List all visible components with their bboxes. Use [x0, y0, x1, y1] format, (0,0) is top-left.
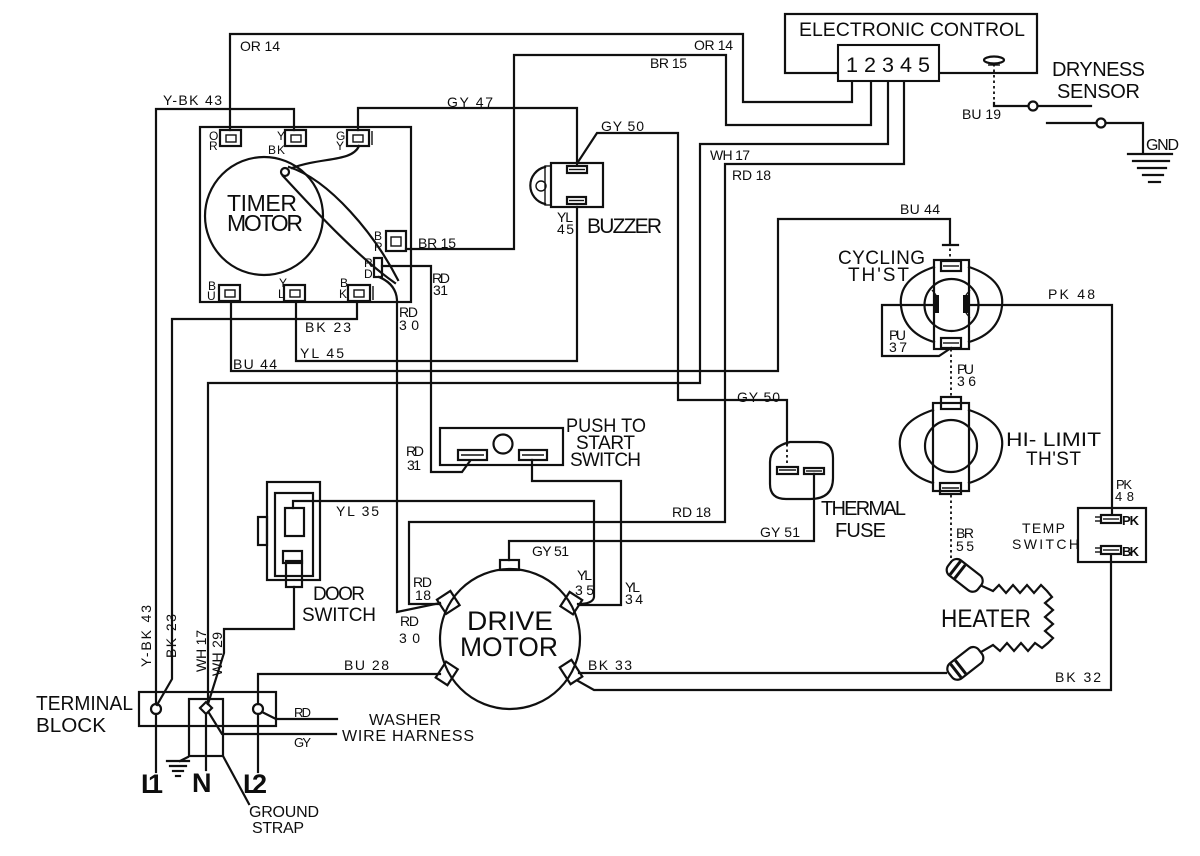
svg-text:DRYNESS: DRYNESS	[1052, 59, 1145, 81]
svg-text:GY 51: GY 51	[760, 524, 800, 540]
hi-limit thermostat body	[900, 397, 1002, 494]
wire RD 31 (timer R/D terminal to push-to-start left contact)	[382, 266, 470, 472]
svg-text:DOOR: DOOR	[313, 584, 365, 605]
motor right lower terminal	[560, 660, 583, 684]
svg-text:MOTOR: MOTOR	[227, 210, 303, 236]
svg-text:BK: BK	[1122, 544, 1140, 559]
thermal fuse right terminal	[804, 468, 824, 474]
temp switch PK terminal	[1095, 513, 1140, 528]
timer terminal B/R right side	[374, 229, 406, 254]
drive motor circle	[440, 569, 580, 709]
svg-text:L2: L2	[243, 769, 267, 799]
svg-text:HI- LIMIT: HI- LIMIT	[1006, 430, 1101, 451]
svg-text:BK 23: BK 23	[305, 319, 351, 335]
svg-text:WH 17: WH 17	[710, 147, 750, 163]
svg-text:GY: GY	[294, 735, 311, 750]
motor top terminal	[500, 560, 519, 570]
wire PK 48 (cycling thermostat right to temp switch PK)	[969, 305, 1112, 513]
wire RD 30 (timer R/D terminal to drive motor left)	[379, 277, 440, 612]
door switch lower contact	[283, 551, 302, 563]
push to start right contact	[519, 450, 547, 460]
svg-text:YL 45: YL 45	[300, 345, 344, 361]
ground strap earth symbol	[167, 757, 189, 776]
svg-text:RD 18: RD 18	[732, 167, 771, 183]
timer terminal B/U	[207, 279, 240, 303]
svg-text:BK: BK	[268, 143, 285, 157]
svg-text:FUSE: FUSE	[835, 520, 886, 542]
wire YL 34 (push-to-start right contact to motor right terminal)	[532, 460, 621, 605]
ground strap pointer line	[223, 756, 249, 804]
svg-text:BU 44: BU 44	[900, 201, 940, 217]
dashed lead from sensor plate	[993, 64, 995, 103]
push to start switch box	[440, 428, 563, 465]
svg-text:31: 31	[407, 457, 421, 473]
wire OR 14 (timer O/R terminal to control pin 1)	[230, 34, 852, 130]
svg-text:L1: L1	[141, 769, 163, 799]
washer harness RD lead	[262, 712, 337, 719]
svg-text:SENSOR: SENSOR	[1057, 81, 1140, 103]
terminal N diamond	[200, 702, 212, 714]
svg-text:45: 45	[557, 221, 574, 237]
svg-text:YL 35: YL 35	[336, 503, 379, 519]
svg-text:PK: PK	[1122, 513, 1140, 528]
wire PU 37 (cycling thermostat left bracket)	[882, 305, 951, 356]
wire BK 33 (motor lower-right terminal to heater)	[579, 672, 946, 674]
svg-text:BU 28: BU 28	[344, 657, 389, 673]
svg-text:YL: YL	[577, 567, 592, 583]
svg-text:BR 15: BR 15	[650, 55, 687, 71]
timer terminal Y/BK	[268, 129, 306, 157]
svg-text:GND: GND	[1146, 137, 1179, 154]
svg-text:U: U	[207, 289, 216, 303]
dashed GY 50 into thermal fuse	[786, 444, 788, 466]
motor right upper terminal	[560, 592, 582, 614]
ground strap box	[189, 699, 223, 756]
timer motor box	[200, 127, 411, 302]
thermal fuse blob	[770, 442, 833, 499]
temp switch box	[1078, 508, 1146, 562]
svg-text:STRAP: STRAP	[252, 820, 304, 837]
ground symbol GND	[1128, 154, 1172, 182]
svg-text:1 2 3 4 5: 1 2 3 4 5	[846, 54, 930, 77]
svg-text:K: K	[339, 287, 347, 301]
dryness sensor contact 1	[994, 103, 1028, 106]
svg-text:GY 50: GY 50	[737, 389, 780, 405]
door switch plunger	[286, 561, 302, 587]
wire PU 36 (cycling bottom to hi-limit top, dashed)	[950, 349, 952, 397]
door switch outer box	[267, 482, 320, 580]
heater bottom connector	[944, 644, 986, 682]
svg-text:BU 44: BU 44	[233, 356, 277, 372]
svg-text:OR 14: OR 14	[694, 37, 733, 53]
door switch inner box	[275, 493, 313, 576]
buzzer body	[530, 163, 603, 207]
svg-text:PK 48: PK 48	[1048, 286, 1095, 302]
thermal fuse left terminal	[777, 467, 798, 474]
svg-text:RD: RD	[294, 705, 311, 720]
svg-text:BK 33: BK 33	[588, 657, 632, 673]
motor left upper terminal	[437, 591, 460, 614]
wire RD 18 (control pin 4 to drive motor left terminal)	[409, 82, 904, 604]
svg-text:BLOCK: BLOCK	[36, 715, 107, 737]
control pins box 1 2 3 4 5	[838, 45, 939, 81]
svg-text:Y: Y	[277, 129, 285, 143]
terminal L2 circle	[253, 704, 263, 714]
push to start button circle	[494, 435, 513, 454]
svg-text:GROUND: GROUND	[249, 804, 319, 821]
svg-text:THERMAL: THERMAL	[821, 498, 906, 520]
washer harness GY lead	[209, 713, 336, 734]
svg-text:BK 32: BK 32	[1055, 669, 1101, 685]
terminal block box	[139, 692, 276, 726]
timer terminal R/D bar	[364, 256, 382, 281]
dryness sensor contact 2	[1047, 122, 1096, 124]
timer motor circle	[205, 157, 323, 275]
wire Y-BK 43 (timer Y/BK terminal to terminal block L1)	[156, 109, 294, 704]
svg-text:MOTOR: MOTOR	[460, 632, 558, 662]
electronic control box	[785, 14, 1037, 73]
svg-text:RD 18: RD 18	[672, 504, 711, 520]
dashed BU44 drop into cycling thermostat	[949, 243, 951, 260]
wire BU 44 (timer B/U terminal to cycling thermostat top)	[231, 219, 950, 371]
wire YL 35 (door switch to drive motor right terminal)	[293, 501, 594, 604]
svg-text:L: L	[278, 287, 285, 301]
svg-text:TH'ST: TH'ST	[848, 265, 909, 286]
svg-text:Y: Y	[336, 139, 344, 153]
timer terminal Y/L	[278, 276, 305, 301]
svg-text:BR 15: BR 15	[418, 235, 456, 251]
svg-text:31: 31	[433, 282, 448, 298]
svg-text:TEMP: TEMP	[1022, 520, 1065, 536]
svg-text:TH'ST: TH'ST	[1026, 449, 1081, 470]
wire YL 45 (timer Y/L terminal to buzzer bottom)	[296, 207, 577, 361]
wire WH 17 (control pin 3 to terminal block N)	[208, 82, 888, 704]
heater element zigzag	[981, 585, 1053, 652]
wire WH 29 (door switch plunger to terminal block N)	[208, 587, 294, 704]
svg-text:TERMINAL: TERMINAL	[36, 693, 133, 715]
svg-text:Y-BK 43: Y-BK 43	[163, 92, 222, 108]
timer cam hook	[281, 168, 289, 176]
svg-text:GY 47: GY 47	[447, 94, 493, 110]
wire GY 51 (drive motor top to thermal fuse right)	[509, 474, 814, 560]
wire BK 23 (timer B/K terminal to L1)	[157, 302, 357, 705]
svg-text:N: N	[192, 768, 212, 798]
heater top connector	[944, 556, 986, 594]
wire GY 47 (timer G/Y terminal to buzzer top)	[358, 108, 577, 164]
timer terminal O/R	[209, 129, 241, 153]
cycling thermostat body	[901, 260, 1002, 349]
svg-text:ELECTRONIC CONTROL: ELECTRONIC CONTROL	[799, 20, 1025, 41]
svg-text:SWITCH: SWITCH	[302, 605, 376, 626]
svg-text:18: 18	[415, 587, 431, 603]
door switch upper contact	[285, 508, 304, 536]
dryness sensor plate on control	[984, 57, 1004, 66]
svg-text:GY 50: GY 50	[601, 118, 644, 134]
svg-text:SWITCH: SWITCH	[570, 450, 641, 471]
svg-text:WIRE HARNESS: WIRE HARNESS	[342, 728, 474, 745]
wire GY 50 (buzzer top to thermal fuse left)	[578, 133, 787, 444]
temp switch BK terminal	[1095, 544, 1140, 559]
wire BR 15 (timer B/R terminal to control pin 2)	[406, 55, 871, 249]
timer terminal B/K	[339, 276, 373, 301]
timer cam link from G/Y terminal	[292, 146, 359, 168]
push to start left contact	[458, 450, 487, 460]
timer cam blade	[283, 167, 398, 283]
svg-text:RD: RD	[400, 613, 419, 629]
svg-text:BU 19: BU 19	[962, 106, 1001, 122]
svg-text:D: D	[364, 267, 373, 281]
wire BR 55 (hi-limit bottom to heater top connector, dashed)	[950, 495, 952, 563]
door switch left tab	[258, 517, 267, 545]
svg-text:BK 23: BK 23	[163, 614, 179, 658]
terminal L1 circle	[151, 704, 161, 714]
svg-text:WASHER: WASHER	[369, 712, 441, 729]
svg-text:OR 14: OR 14	[240, 38, 280, 54]
svg-text:R: R	[209, 139, 218, 153]
svg-text:WH 17: WH 17	[193, 630, 209, 672]
svg-text:HEATER: HEATER	[941, 605, 1031, 633]
svg-text:WH 29: WH 29	[209, 632, 225, 676]
wire BU 28 (terminal block L2 to motor lower-left terminal)	[258, 674, 440, 704]
timer terminal G/Y	[336, 129, 372, 153]
motor left lower terminal	[436, 662, 458, 686]
svg-text:BUZZER: BUZZER	[587, 215, 662, 238]
wire BK 32 (motor lower-right to temp switch BK)	[578, 555, 1111, 690]
svg-text:GY 51: GY 51	[532, 543, 569, 559]
